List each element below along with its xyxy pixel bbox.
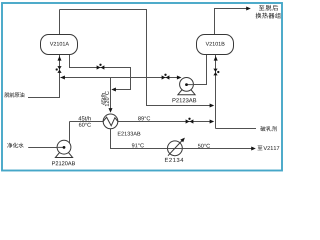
label 91C [132,143,144,147]
mixing valve under V2101B [213,69,219,76]
mixing valve under V2101A [56,66,62,73]
wire branch down to E2133AB [110,78,112,110]
arrow into E2133AB top [109,108,113,113]
label purified water [7,143,23,148]
wire V2101B mix-valve riser [215,55,217,129]
wire P2120AB inlet [28,147,57,149]
label demulsifier [260,126,277,131]
wire V2101A bottom brine line1 with jog [70,55,131,90]
label 89C [138,116,150,120]
arrow line2 into pump P2123AB [177,76,182,80]
valve on brine line1 [97,64,105,70]
rotated label 120C on E2133AB feed [105,91,109,106]
rotated label 45t/h on E2133AB feed [101,93,105,105]
arrow jog into E2133AB branch [111,88,116,92]
pump P2120AB [52,140,75,165]
label crude feed [4,92,24,97]
valve on recycle line2 [162,74,170,80]
wire E2133AB bottom outlet [111,129,168,149]
arrow into V2101B bottom [214,56,218,61]
arrow water line into mix point [210,120,215,124]
vessel V2101A [41,35,78,55]
wire top header down to second-stage mix line [60,10,212,106]
wire V2101B bottom outlet to pump suction [193,55,206,85]
label to post-desalting exchanger group [256,5,281,19]
wire V2101A top riser [59,10,61,35]
wire recycle water line2 [61,77,179,79]
vessel V2101B [197,35,234,55]
wire water line through E2133AB [70,121,212,123]
label to V2117 [258,146,280,151]
arrow oil line into mix point [210,104,215,108]
wire crude feed [28,55,60,98]
pump P2123AB [173,78,197,103]
wire E2134 outlet to V2117 [182,148,252,150]
heat exchanger E2133AB [103,114,140,136]
wire demulsifier branch [216,128,257,130]
label 45t/h above water line [78,116,90,120]
wire V2101B top outlet line [215,9,248,35]
arrow to post-desalter exchangers [246,7,251,11]
arrow to V2117 [251,147,256,151]
label 60C below water line [79,123,91,127]
valve on injection water line [186,118,194,124]
selection frame border [2,3,282,171]
label 50C [198,144,210,148]
arrow into V2101A bottom [58,56,62,61]
trim cooler E2134 [165,138,185,162]
wire P2120AB discharge riser [69,122,71,144]
arrow line2 into crude junction [60,76,65,80]
